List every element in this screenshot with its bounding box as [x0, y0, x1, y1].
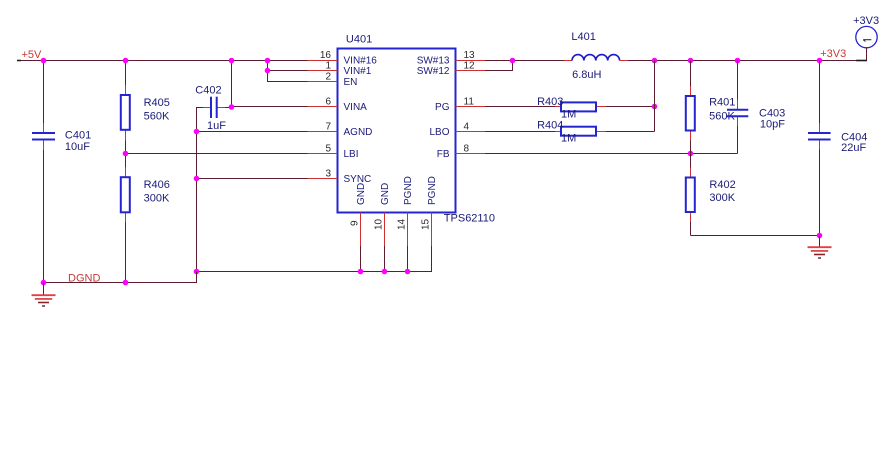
ground left: [32, 283, 56, 307]
pin 10 stub: [384, 213, 386, 247]
wire output rail: [628, 60, 858, 62]
pin 7 stub: [308, 131, 338, 133]
svg-text:1: 1: [325, 61, 331, 72]
junction FB node: [688, 151, 694, 157]
pin 11 stub: [456, 106, 486, 108]
svg-text:300K: 300K: [709, 192, 735, 204]
wire R404 to pullup vertical: [606, 131, 655, 133]
svg-text:PGND: PGND: [403, 176, 414, 205]
svg-text:5: 5: [325, 144, 331, 155]
svg-text:TPS62110: TPS62110: [444, 212, 495, 224]
junction VIN#1: [265, 68, 271, 74]
pin 2 stub: [308, 81, 338, 83]
svg-text:4: 4: [464, 122, 470, 133]
svg-text:SW#12: SW#12: [417, 66, 450, 77]
svg-text:C401: C401: [65, 130, 91, 142]
junction output R403 vert: [652, 58, 658, 64]
capacitor C403: [727, 61, 785, 154]
junction output C404: [817, 58, 823, 64]
svg-text:7: 7: [325, 122, 331, 133]
pin 8 stub: [456, 153, 486, 155]
wire bottom bus: [197, 246, 432, 272]
svg-text:13: 13: [464, 50, 476, 61]
pin 13 stub: [456, 60, 486, 62]
svg-text:FB: FB: [437, 149, 450, 160]
svg-text:22uF: 22uF: [841, 142, 866, 154]
svg-text:6.8uH: 6.8uH: [572, 69, 601, 81]
svg-text:9: 9: [350, 220, 361, 226]
svg-text:10uF: 10uF: [65, 141, 90, 153]
junction ground node: [817, 233, 823, 239]
svg-text:L401: L401: [571, 31, 595, 43]
svg-text:11: 11: [464, 97, 475, 108]
svg-text:300K: 300K: [144, 193, 170, 205]
svg-text:GND: GND: [356, 183, 367, 205]
op-amp U401 body: [338, 33, 495, 224]
svg-text:U401: U401: [346, 33, 372, 45]
pin 9 stub: [360, 213, 362, 247]
resistor R404: [537, 120, 606, 145]
svg-text:10pF: 10pF: [760, 118, 785, 130]
svg-text:1M: 1M: [561, 132, 576, 144]
resistor R405: [121, 60, 170, 154]
svg-text:8: 8: [464, 144, 470, 155]
svg-text:R405: R405: [144, 97, 170, 109]
wire SW#12 join: [485, 61, 513, 71]
wire pin9 drop: [360, 246, 362, 272]
svg-text:R406: R406: [144, 179, 170, 191]
wire SW out to inductor: [485, 60, 564, 62]
junction rail R405: [123, 58, 129, 64]
power symbol +3V3: [853, 15, 879, 61]
wire R403 to pullup vertical: [606, 106, 655, 108]
svg-text:16: 16: [320, 50, 332, 61]
junction rail EN: [265, 58, 271, 64]
svg-text:PGND: PGND: [427, 176, 438, 205]
svg-text:6: 6: [325, 97, 331, 108]
svg-text:C402: C402: [195, 84, 221, 96]
wire C402 left corner down: [196, 107, 198, 132]
junction bus pin10: [382, 269, 388, 275]
svg-text:VIN#16: VIN#16: [344, 56, 378, 67]
svg-text:R403: R403: [537, 96, 563, 108]
svg-text:1uF: 1uF: [207, 120, 226, 132]
pin 5 stub: [308, 153, 338, 155]
svg-text:R404: R404: [537, 120, 563, 132]
wire C401 branch vertical: [43, 60, 45, 123]
svg-text:2: 2: [325, 72, 331, 83]
wire SYNC to pin 3: [197, 178, 338, 180]
wire LBI to pin 5: [126, 153, 338, 155]
wire C401 lower lead to DGND: [43, 150, 45, 283]
pin 3 stub: [308, 178, 338, 180]
svg-text:PG: PG: [435, 102, 450, 113]
pin 6 stub: [308, 106, 338, 108]
svg-text:+3V3: +3V3: [853, 15, 879, 27]
junction DGND C401: [41, 280, 47, 286]
junction AGND C402: [194, 129, 200, 135]
wire VINA to pin 6: [232, 106, 338, 108]
junction LBI divider: [123, 151, 129, 157]
wire rail left anchor tick: [17, 60, 21, 62]
junction output R401: [688, 58, 694, 64]
capacitor C402: [195, 84, 231, 132]
junction output C403: [735, 58, 741, 64]
junction VINA C402: [229, 104, 235, 110]
capacitor C401: [32, 123, 91, 153]
capacitor C404: [808, 61, 867, 236]
wire R402 bottom to ground node: [691, 235, 820, 237]
junction R403 pullup: [652, 104, 658, 110]
wire LBO to R404: [485, 131, 555, 133]
wire VIN#1: [268, 70, 338, 72]
svg-text:SW#13: SW#13: [417, 56, 450, 67]
resistor R403: [537, 96, 606, 121]
pin 4 stub: [456, 131, 486, 133]
wire DGND bus: [44, 272, 197, 283]
junction SYNC: [194, 176, 200, 182]
wire EN branch: [268, 60, 338, 82]
svg-text:10: 10: [374, 218, 385, 230]
resistor R401: [686, 61, 736, 154]
svg-text:DGND: DGND: [68, 272, 100, 284]
svg-text:LBO: LBO: [429, 127, 449, 138]
wire +5V rail: [17, 60, 338, 62]
svg-text:12: 12: [464, 61, 476, 72]
junction bus left vert: [194, 269, 200, 275]
pin 16 stub: [308, 60, 338, 62]
junction rail VINA: [229, 58, 235, 64]
wire left vertical DGND branch: [196, 131, 198, 283]
wire FB: [485, 153, 738, 155]
pin 15 stub: [431, 213, 433, 247]
svg-text:14: 14: [397, 218, 408, 230]
resistor R406: [121, 154, 170, 283]
resistor R402: [686, 154, 736, 236]
svg-text:15: 15: [421, 218, 432, 230]
junction bus pin9: [358, 269, 364, 275]
svg-text:+3V3: +3V3: [820, 48, 846, 60]
svg-text:R402: R402: [709, 179, 735, 191]
pin 12 stub: [456, 70, 486, 72]
pin 14 stub: [407, 213, 409, 247]
wire pullup vertical: [654, 61, 656, 132]
pin 1 stub: [308, 70, 338, 72]
wire AGND to pin 7: [197, 131, 338, 133]
wire PG to R403: [485, 106, 555, 108]
svg-text:EN: EN: [344, 77, 358, 88]
junction rail C401: [41, 58, 47, 64]
wire VINA branch vertical: [231, 60, 233, 108]
ground right: [808, 236, 832, 259]
junction SW12: [510, 58, 516, 64]
junction bus pin14: [405, 269, 411, 275]
wire pin14 drop: [407, 246, 409, 272]
svg-text:R401: R401: [709, 96, 735, 108]
inductor L401: [564, 31, 628, 81]
wire pin10 drop: [384, 246, 386, 272]
svg-text:AGND: AGND: [344, 127, 373, 138]
svg-text:VINA: VINA: [344, 102, 368, 113]
svg-text:VIN#1: VIN#1: [344, 66, 372, 77]
svg-text:3: 3: [325, 169, 331, 180]
junction DGND R406: [123, 280, 129, 286]
svg-text:GND: GND: [380, 183, 391, 205]
svg-text:560K: 560K: [144, 111, 170, 123]
svg-text:+5V: +5V: [22, 49, 43, 61]
svg-text:LBI: LBI: [344, 149, 359, 160]
